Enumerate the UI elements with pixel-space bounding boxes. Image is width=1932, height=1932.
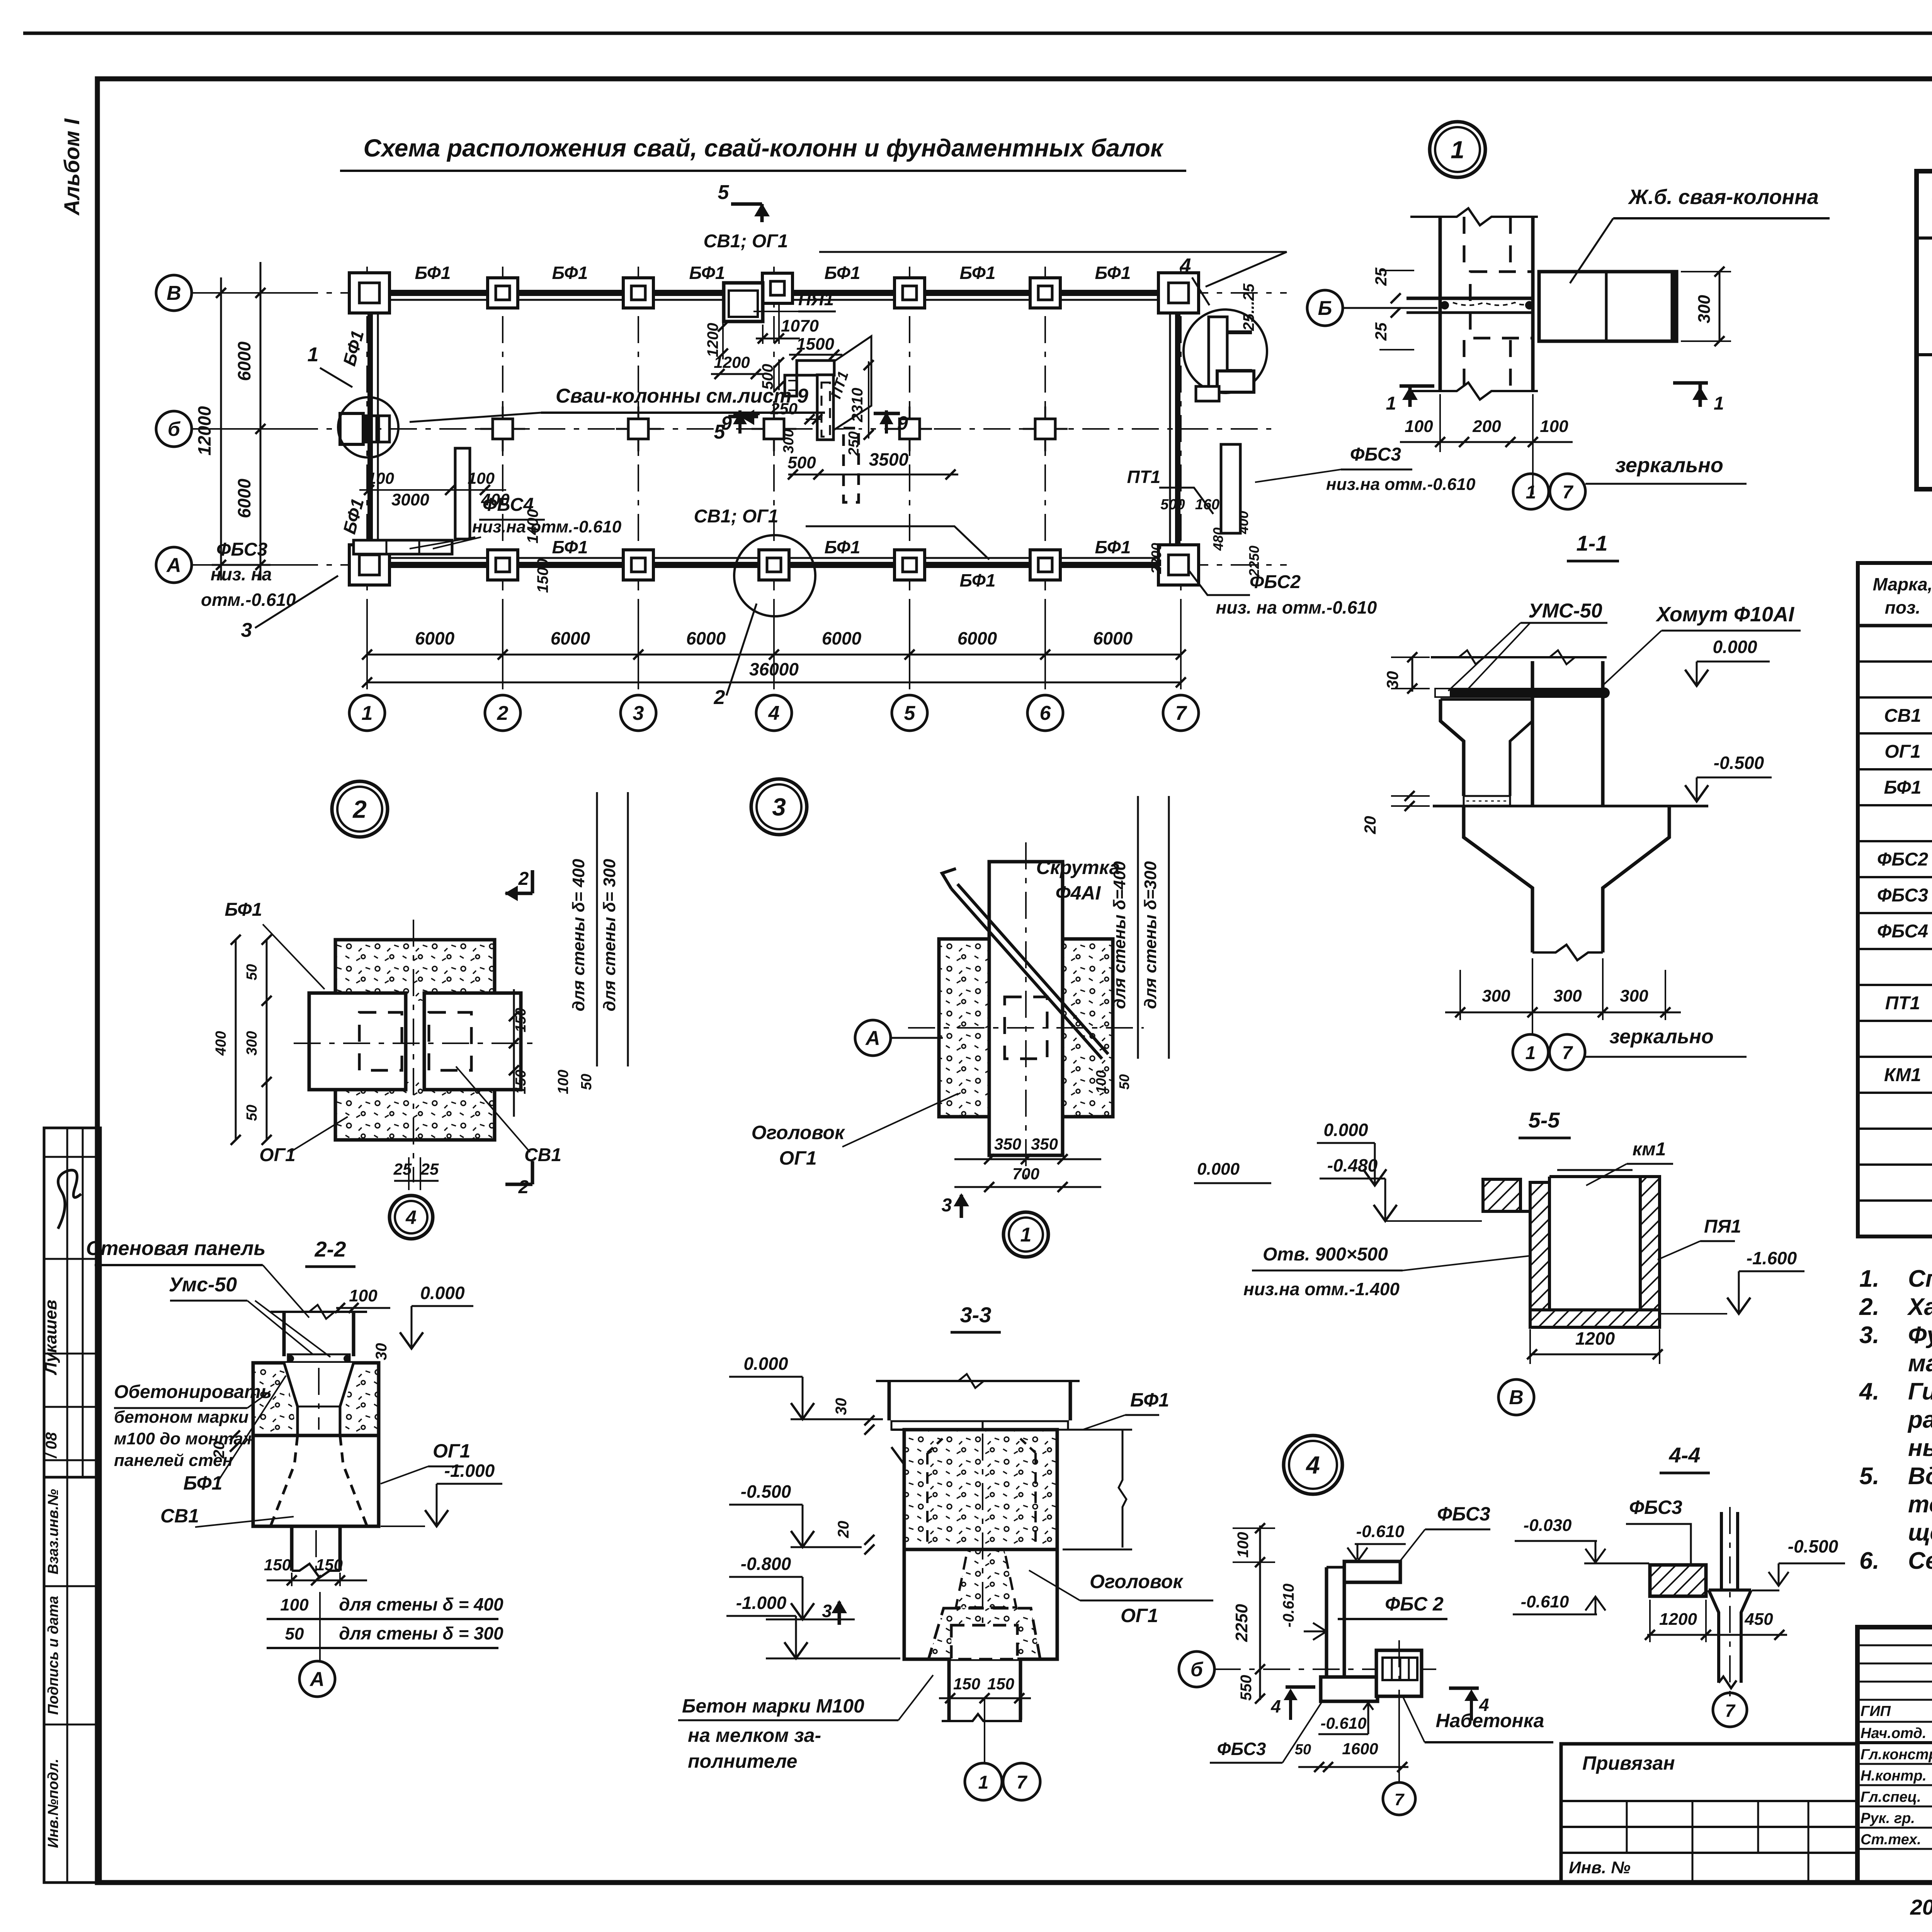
svg-text:-0.480: -0.480: [1327, 1155, 1378, 1175]
pile-column СВ1 row А axis 6: [1030, 550, 1060, 580]
svg-text:Ж.б. свая-колонна: Ж.б. свая-колонна: [1628, 185, 1819, 209]
interior pile-column row Б axis 3: [638, 406, 639, 451]
svg-text:3-3: 3-3: [960, 1303, 992, 1327]
svg-text:0.000: 0.000: [420, 1283, 465, 1303]
svg-text:1-1: 1-1: [1577, 531, 1608, 555]
svg-text:ФБС 2: ФБС 2: [1385, 1593, 1444, 1615]
svg-text:3: 3: [942, 1195, 952, 1216]
pit cover line км1: [1549, 1175, 1640, 1178]
detail 1: break marks: [1410, 208, 1538, 225]
svg-text:ФБС3: ФБС3: [1217, 1739, 1266, 1759]
svg-text:0.000: 0.000: [1197, 1160, 1240, 1179]
right wall beam БФ1: [1175, 293, 1180, 565]
svg-text:25...25: 25...25: [1240, 283, 1257, 331]
svg-text:БФ1: БФ1: [184, 1472, 223, 1494]
plan: column axis 1: [366, 267, 368, 696]
detail 1: mortar joint: [1406, 297, 1533, 300]
svg-text:2250: 2250: [1232, 1604, 1251, 1642]
svg-text:ФБС3: ФБС3: [216, 539, 267, 560]
section 1-1: bottom break: [1532, 945, 1603, 960]
svg-text:низ.на отм.-0.610: низ.на отм.-0.610: [472, 517, 622, 536]
svg-text:Привязан: Привязан: [1582, 1752, 1675, 1774]
svg-text:ОГ1: ОГ1: [1884, 742, 1921, 762]
svg-text:500: 500: [787, 453, 816, 472]
detail 1 circle: [1430, 122, 1485, 177]
plan: row Б axis line: [192, 428, 1271, 430]
underfloor channel plates ПТ1 plan: [797, 361, 834, 375]
left wall beam БФ1: [367, 293, 373, 565]
section 1-1: level flag -0.500: [1696, 777, 1698, 801]
svg-text:А: А: [309, 1668, 325, 1690]
svg-text:для стены δ= 400: для стены δ= 400: [569, 859, 588, 1011]
svg-text:150: 150: [953, 1675, 980, 1693]
plan: row В axis line: [192, 292, 1287, 294]
interior pile-column row Б axis 2: [502, 406, 504, 451]
svg-text:-0.500: -0.500: [1714, 753, 1764, 773]
svg-text:км1: км1: [1633, 1139, 1666, 1160]
section 5-5: pit ПЯ1 walls: [1483, 1179, 1520, 1211]
svg-text:6000: 6000: [234, 478, 254, 518]
axis circle 7: [1163, 695, 1199, 731]
svg-text:50: 50: [244, 1105, 260, 1121]
detail 3: vertical beam plan: [989, 862, 1063, 1155]
svg-text:Гл.спец.: Гл.спец.: [1861, 1789, 1921, 1805]
svg-text:зеркально: зеркально: [1615, 454, 1723, 477]
svg-text:зеркально: зеркально: [1609, 1026, 1713, 1048]
svg-text:ФБС3: ФБС3: [1350, 444, 1401, 465]
svg-text:100: 100: [1540, 417, 1568, 436]
svg-text:6.: 6.: [1859, 1548, 1879, 1574]
signature scribble: [58, 1170, 81, 1229]
level mark 0.000: [1363, 1169, 1386, 1185]
svg-text:50: 50: [244, 964, 260, 980]
svg-text:Взаз.инв.№: Взаз.инв.№: [45, 1489, 61, 1574]
svg-text:Оголовок: Оголовок: [1090, 1571, 1184, 1592]
pile-column СВ1 row В axis 3: [623, 278, 653, 308]
axis circle 2: [485, 695, 520, 731]
leader СВ1 ОГ1 bottom: [806, 526, 989, 560]
pile-column СВ1 row А axis 4: [759, 550, 789, 580]
level mark 0.000: [400, 1332, 423, 1349]
svg-text:3: 3: [822, 1601, 832, 1621]
svg-text:6000: 6000: [234, 341, 254, 381]
svg-text:ФБС2: ФБС2: [1877, 849, 1928, 870]
detail 4: КМ1 channel block: [1376, 1650, 1422, 1696]
svg-text:0.000: 0.000: [743, 1354, 788, 1374]
svg-text:-0.500: -0.500: [1788, 1536, 1838, 1556]
svg-text:4: 4: [1305, 1451, 1320, 1479]
svg-text:150: 150: [987, 1675, 1014, 1693]
svg-text:б: б: [168, 418, 181, 440]
svg-text:ФБС3: ФБС3: [1437, 1503, 1490, 1525]
svg-text:низ. на: низ. на: [211, 564, 272, 584]
left margin stamp: upper signature block: [44, 1128, 100, 1477]
svg-text:100: 100: [280, 1595, 309, 1614]
svg-text:Сваи-колонны см.лист 9: Сваи-колонны см.лист 9: [556, 385, 808, 407]
svg-text:СВ1; ОГ1: СВ1; ОГ1: [694, 506, 779, 527]
svg-text:-0.800: -0.800: [741, 1554, 791, 1574]
svg-text:7: 7: [1725, 1701, 1736, 1721]
svg-text:ГИП: ГИП: [1861, 1703, 1891, 1719]
svg-text:50: 50: [1116, 1074, 1132, 1090]
svg-text:300: 300: [1695, 295, 1714, 323]
svg-text:5: 5: [718, 181, 730, 204]
svg-text:300: 300: [1482, 986, 1510, 1005]
svg-text:100: 100: [1235, 1532, 1252, 1558]
svg-text:7: 7: [1562, 1043, 1573, 1063]
svg-text:25: 25: [420, 1160, 439, 1178]
svg-text:1: 1: [1451, 136, 1464, 163]
pit ПЯ1 plan: [724, 283, 763, 321]
svg-text:Б: Б: [1318, 297, 1332, 320]
sheet outer top border: [23, 32, 1932, 35]
svg-text:-0.610: -0.610: [1521, 1592, 1569, 1611]
left margin stamp: lower block: [44, 1477, 100, 1883]
plan title underline: [340, 170, 1186, 172]
svg-text:Характеристики грунта основа: Характеристики грунта основания даны на …: [1907, 1294, 1932, 1320]
svg-text:4-4: 4-4: [1669, 1443, 1701, 1467]
svg-text:1: 1: [308, 344, 319, 366]
axis circle В: [156, 275, 192, 311]
svg-text:2-2: 2-2: [315, 1237, 346, 1261]
svg-text:-0.610: -0.610: [1356, 1522, 1405, 1541]
svg-text:150: 150: [316, 1556, 343, 1574]
svg-text:550: 550: [1238, 1675, 1255, 1701]
plan bottom dimension chain 6x6000: [367, 654, 1181, 656]
svg-text:7: 7: [1175, 702, 1187, 724]
svg-text:В: В: [167, 282, 181, 304]
svg-text:раствора состава 1:2 толщ.: раствора состава 1:2 толщ. 30мм на отм.-…: [1907, 1406, 1932, 1433]
svg-text:для стены δ=300: для стены δ=300: [1141, 861, 1160, 1009]
detail 1: precast pile-column plan: [1539, 272, 1677, 341]
svg-text:низ.на отм.-0.610: низ.на отм.-0.610: [1326, 475, 1476, 494]
svg-text:на мелком за-: на мелком за-: [688, 1725, 821, 1746]
section 2-2: collar block (обетонировать): [253, 1363, 379, 1435]
svg-text:2200: 2200: [1148, 543, 1164, 574]
svg-text:бетоном марки: бетоном марки: [114, 1408, 249, 1427]
svg-text:Сеч. 9-9 и деталь опирания: Сеч. 9-9 и деталь опирания перегородок с…: [1908, 1548, 1932, 1574]
detail 4: ФБС2 wall: [1325, 1567, 1328, 1678]
section 4-4: dims 1200 450: [1647, 1634, 1787, 1636]
section 1-1: bottom dims 300 300 300: [1445, 1012, 1681, 1014]
svg-text:полнителе: полнителе: [688, 1750, 797, 1772]
svg-text:ОГ1: ОГ1: [1121, 1605, 1158, 1626]
svg-text:1070: 1070: [781, 316, 819, 335]
svg-text:1600: 1600: [1342, 1740, 1378, 1758]
svg-text:9: 9: [721, 412, 732, 434]
detail 2 circle: [332, 781, 388, 837]
svg-text:100: 100: [1093, 1070, 1109, 1094]
svg-text:для стены δ = 300: для стены δ = 300: [339, 1623, 503, 1643]
section 1-1: zero level top line: [1431, 656, 1607, 658]
detail 1: section marks 1-1: [1400, 384, 1434, 388]
svg-text:БФ1: БФ1: [1095, 537, 1131, 557]
svg-text:6000: 6000: [686, 628, 726, 648]
svg-text:поз.: поз.: [1885, 597, 1920, 617]
svg-text:ФБС3: ФБС3: [1629, 1497, 1682, 1518]
svg-text:6000: 6000: [415, 628, 455, 648]
level mark -1.600: [1727, 1298, 1750, 1314]
detail 4: section marks 4: [1286, 1685, 1315, 1689]
svg-text:1: 1: [1386, 393, 1396, 414]
svg-text:12000: 12000: [194, 406, 214, 456]
svg-text:4: 4: [405, 1207, 417, 1228]
leader to pile Б/1: [410, 413, 541, 422]
section 3-3: pile stubs below collar: [947, 1659, 951, 1720]
svg-text:2: 2: [518, 1177, 529, 1197]
svg-text:Лукашев: Лукашев: [41, 1300, 60, 1376]
section 3-3: beam concrete portion: [904, 1430, 1057, 1549]
svg-text:Марка,: Марка,: [1873, 574, 1932, 594]
svg-text:Спецификацию на сваи- колонн: Спецификацию на сваи- колонны см. лист 9…: [1908, 1265, 1932, 1292]
plan: column axis 5: [909, 267, 910, 696]
svg-text:БФ1: БФ1: [339, 496, 367, 536]
svg-text:5: 5: [904, 702, 916, 724]
beam inner face row А: [367, 557, 1181, 559]
detail 2: beams БФ1 plan: [309, 993, 406, 1090]
svg-text:ОГ1: ОГ1: [259, 1145, 296, 1165]
detail circle 4 region at Б/7: [1184, 310, 1267, 393]
svg-text:0.000: 0.000: [1713, 637, 1757, 657]
section 1-1: -0.500 level line: [1433, 805, 1708, 808]
svg-text:3000: 3000: [391, 490, 429, 509]
svg-text:150: 150: [264, 1556, 291, 1574]
svg-text:БФ1: БФ1: [689, 263, 725, 283]
svg-text:7: 7: [1395, 1790, 1405, 1809]
detail 1: wall panel verticals: [1439, 217, 1442, 391]
svg-text:-1.000: -1.000: [444, 1461, 495, 1481]
svg-text:500: 500: [1160, 497, 1185, 513]
detail 2: right dims 150 150 100 50: [513, 989, 515, 1117]
svg-text:ПТ1: ПТ1: [1885, 993, 1920, 1014]
svg-text:300: 300: [244, 1031, 260, 1055]
section 2-2: mortar joint: [288, 1354, 350, 1363]
pile-column СВ1 row А axis 2: [488, 550, 518, 580]
svg-text:3: 3: [633, 702, 644, 724]
svg-text:БФ1: БФ1: [1130, 1389, 1169, 1411]
svg-text:7: 7: [1563, 482, 1574, 503]
svg-text:Обетонировать: Обетонировать: [114, 1382, 272, 1402]
svg-text:ФБС2: ФБС2: [1250, 572, 1301, 592]
svg-text:30: 30: [833, 1398, 850, 1415]
right wall beam inner face: [1169, 293, 1171, 565]
section 1-1: level flag 0.000: [1696, 662, 1698, 686]
svg-text:СВ1: СВ1: [1884, 706, 1921, 726]
svg-text:ПЯ1: ПЯ1: [1704, 1216, 1741, 1237]
pile-column СВ1 row А axis 1: [349, 545, 389, 585]
svg-text:БФ1: БФ1: [552, 263, 588, 283]
plan: column axis 7: [1180, 267, 1182, 696]
axis circle В (5-5): [1498, 1379, 1534, 1415]
svg-text:низ. на отм.-0.610: низ. на отм.-0.610: [1216, 597, 1377, 617]
svg-text:9: 9: [897, 412, 908, 434]
level mark -0.500: [791, 1531, 814, 1547]
svg-text:25: 25: [1372, 322, 1390, 341]
svg-text:-0.610: -0.610: [1280, 1583, 1297, 1627]
axis circle А: [156, 547, 192, 583]
section 5-5: dim 1200: [1530, 1354, 1660, 1355]
svg-text:УМС-50: УМС-50: [1528, 600, 1602, 622]
svg-text:1200: 1200: [714, 353, 750, 371]
svg-text:300: 300: [1553, 986, 1582, 1005]
svg-text:отм.-0.610: отм.-0.610: [201, 590, 296, 610]
svg-text:Ст.тех.: Ст.тех.: [1861, 1832, 1921, 1848]
svg-text:0.000: 0.000: [1323, 1120, 1368, 1140]
section 3-3: funnel (pile neck in collar): [956, 1549, 1016, 1607]
svg-text:1: 1: [1526, 1043, 1536, 1063]
svg-text:3: 3: [772, 793, 786, 821]
level mark -1.000: [784, 1642, 808, 1658]
section 3-3: collar head: [929, 1608, 1040, 1659]
svg-text:450: 450: [1744, 1610, 1773, 1629]
level mark -0.480: [1374, 1205, 1397, 1221]
detail 3: collar concrete plan: [939, 939, 1113, 1117]
axis circle Б: [156, 411, 192, 447]
leader triangle ПТ1: [834, 336, 871, 430]
svg-text:БФ1: БФ1: [225, 900, 262, 920]
axis circle 4 below detail 2: [389, 1196, 433, 1239]
svg-text:1: 1: [1020, 1224, 1032, 1246]
load table grid: [1917, 171, 1932, 489]
pile-column СВ1 row А axis 7: [1158, 545, 1199, 585]
svg-text:б: б: [1190, 1658, 1204, 1681]
section 3-3: collar box ОГ1: [904, 1430, 1057, 1659]
svg-text:350: 350: [1031, 1135, 1058, 1153]
svg-text:5-5: 5-5: [1529, 1108, 1560, 1132]
svg-text:20: 20: [835, 1521, 852, 1539]
svg-text:Гл.констр.: Гл.констр.: [1861, 1747, 1932, 1763]
detail 4: axis Б: [1179, 1651, 1214, 1687]
svg-text:В: В: [1509, 1386, 1524, 1409]
plate strip at axis 7: [1221, 444, 1240, 533]
section 1-1: pile body: [1464, 806, 1532, 952]
svg-text:Н.контр.: Н.контр.: [1861, 1768, 1927, 1784]
svg-text:6000: 6000: [1093, 628, 1133, 648]
detail 3 circle: [751, 779, 807, 835]
plan: column axis 3: [638, 267, 639, 696]
svg-text:низ.на отм.-1.400: низ.на отм.-1.400: [1243, 1279, 1400, 1299]
привязан box: [1561, 1744, 1857, 1883]
detail 4: dims 100 2250 550: [1259, 1526, 1261, 1700]
plan bottom dimension 36000: [367, 682, 1181, 684]
axis circle 4: [756, 695, 792, 731]
section 2-2: pile below: [290, 1526, 294, 1571]
svg-text:6000: 6000: [551, 628, 590, 648]
svg-text:6000: 6000: [822, 628, 862, 648]
svg-text:Схема расположения свай, свай-: Схема расположения свай, свай-колонн и ф…: [364, 134, 1164, 162]
section 2-2: collar ОГ1: [253, 1435, 379, 1526]
svg-text:1: 1: [362, 702, 373, 724]
pile-column СВ1 row А axis 3: [623, 550, 653, 580]
svg-text:ФБС3: ФБС3: [1877, 885, 1928, 906]
plan: column axis 2: [502, 267, 503, 696]
svg-text:Скрутка: Скрутка: [1036, 857, 1120, 878]
svg-text:1200: 1200: [704, 323, 721, 357]
svg-text:1200: 1200: [1575, 1328, 1615, 1349]
svg-text:-0.030: -0.030: [1524, 1516, 1572, 1535]
svg-text:Инв. №: Инв. №: [1569, 1858, 1631, 1877]
section 4-4: pile column: [1720, 1512, 1723, 1590]
svg-text:30: 30: [373, 1343, 390, 1361]
svg-text:Гидроизоляция для панелей в: Гидроизоляция для панелей выполняется из…: [1908, 1378, 1932, 1405]
svg-text:6000: 6000: [957, 628, 997, 648]
section 2-2: wall thickness table: [267, 1618, 498, 1620]
svg-text:2: 2: [714, 686, 725, 709]
svg-text:150: 150: [513, 1008, 529, 1032]
svg-text:3500: 3500: [869, 449, 909, 469]
section 3-3: wall panel: [888, 1381, 891, 1420]
svg-text:350: 350: [994, 1135, 1021, 1153]
svg-text:250: 250: [846, 431, 862, 456]
axis circle 6: [1027, 695, 1063, 731]
svg-text:1.: 1.: [1859, 1265, 1879, 1292]
svg-text:1200: 1200: [1659, 1610, 1697, 1629]
detail 2: collar concrete plan: [335, 940, 495, 1140]
svg-text:А: А: [166, 554, 181, 577]
svg-text:А: А: [865, 1027, 880, 1049]
svg-text:-0.610: -0.610: [1320, 1714, 1366, 1732]
pile-column СВ1 row В axis 6: [1030, 278, 1060, 308]
svg-text:БФ1: БФ1: [339, 328, 367, 368]
svg-text:Подпись и дата: Подпись и дата: [45, 1596, 61, 1715]
svg-text:для стены δ= 300: для стены δ= 300: [600, 859, 619, 1011]
svg-text:3.: 3.: [1859, 1322, 1879, 1349]
detail 2 axis line: [294, 1043, 537, 1044]
svg-text:БФ1: БФ1: [552, 537, 588, 557]
svg-text:СВ1: СВ1: [160, 1505, 199, 1527]
svg-text:-0.500: -0.500: [741, 1481, 791, 1502]
svg-text:2: 2: [497, 702, 509, 724]
spec table grid: [1858, 563, 1932, 1236]
plate ПТ1 and beams inside detail 4 circle: [1209, 317, 1227, 386]
svg-text:20967-01: 20967-01: [1910, 1895, 1932, 1919]
beam line row В (БФ1 chain): [367, 290, 1181, 296]
svg-text:7: 7: [1017, 1772, 1028, 1793]
svg-text:-1.000: -1.000: [736, 1593, 787, 1613]
section 2-2: dims 150 150: [267, 1580, 367, 1582]
detail 1: bottom dims 100 200 100: [1400, 441, 1573, 443]
svg-text:100: 100: [468, 469, 495, 487]
svg-text:толщ. 20 мм шириной 700 мм: толщ. 20 мм шириной 700 мм на плотно утр…: [1908, 1491, 1932, 1518]
svg-text:СВ1: СВ1: [524, 1145, 561, 1165]
svg-text:ФБС4: ФБС4: [1877, 921, 1928, 942]
axis circle 1 below detail 3: [1003, 1212, 1048, 1257]
detail circle at А/4: [734, 535, 815, 616]
detail 1: hidden pile head dashes: [1470, 272, 1533, 338]
pile-column СВ1 row В axis 5: [895, 278, 925, 308]
svg-text:2: 2: [352, 795, 367, 823]
interior pile-column row Б axis 4: [773, 406, 775, 451]
pile-column СВ1 row В axis 7: [1158, 273, 1199, 313]
detail 1: axis Б circle: [1307, 290, 1343, 326]
svg-text:3: 3: [241, 619, 252, 641]
svg-text:Набетонка: Набетонка: [1436, 1710, 1544, 1731]
svg-text:/ 08: / 08: [43, 1432, 60, 1459]
level mark -1.000: [425, 1510, 448, 1526]
svg-text:-1.600: -1.600: [1747, 1248, 1797, 1268]
svg-text:щебеночном основании толщ. 1: щебеночном основании толщ. 100 мм с укло…: [1908, 1519, 1932, 1546]
svg-text:4: 4: [768, 702, 780, 724]
plan left dimension 12000: [220, 277, 222, 580]
svg-text:Рук. гр.: Рук. гр.: [1861, 1810, 1915, 1827]
svg-text:5.: 5.: [1859, 1463, 1879, 1490]
detail circle at Б/1: [338, 397, 398, 457]
svg-text:БФ1: БФ1: [825, 263, 861, 283]
svg-text:м100 до монтажа: м100 до монтажа: [114, 1429, 265, 1448]
svg-text:6: 6: [1040, 702, 1051, 724]
section 3-3: right extension with break: [1063, 1429, 1132, 1431]
detail 4: ФБС3 flange: [1344, 1561, 1400, 1582]
